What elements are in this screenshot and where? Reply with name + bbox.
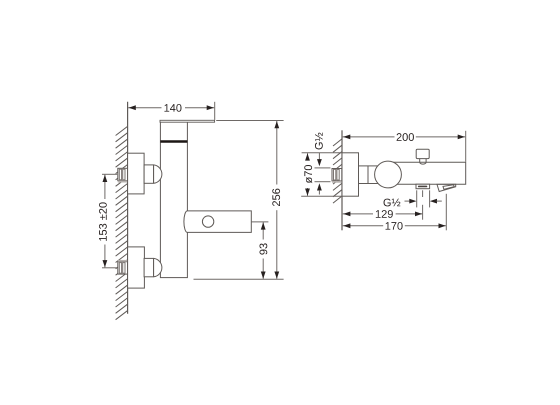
dimension ø70 label <box>304 165 312 183</box>
dimension 200 right extension <box>465 131 467 162</box>
left view bottom inlet nipple <box>118 260 128 274</box>
dimension 93 line <box>262 222 264 239</box>
dimension 153±20 label <box>99 202 107 241</box>
dimension ø70 ref lines <box>302 152 342 154</box>
dimension 129 label <box>376 210 393 218</box>
right view wall hatching <box>333 139 342 203</box>
left view wall line <box>127 102 129 314</box>
left view bottom escutcheon <box>128 247 145 288</box>
left view top union nut <box>144 165 162 183</box>
outlet axis extension line <box>422 190 424 197</box>
label G1/2 top left <box>315 133 323 150</box>
left view wall hatching <box>116 127 128 320</box>
dimension 200 line <box>343 136 395 138</box>
dimension 256 top ref line <box>216 120 283 122</box>
dimension 93 label <box>259 243 267 254</box>
dimension 170 right extension <box>445 194 447 231</box>
dimension 140 extension line right <box>214 102 216 120</box>
label G1/2 bottom <box>384 199 401 207</box>
left view faucet body <box>160 122 187 278</box>
left view top escutcheon <box>128 153 145 194</box>
left view bottom union nut <box>144 258 162 276</box>
left view body joint thick line <box>160 140 187 142</box>
right view aerator <box>416 184 430 189</box>
dimension 93 ref line (spout axis) <box>251 221 268 223</box>
dimension 153±20 ref line bottom <box>102 267 117 269</box>
bottom ref line <box>194 278 284 280</box>
right view neck tube <box>359 166 379 184</box>
dimension 140 label <box>164 104 181 112</box>
dimension 170 line <box>343 225 384 227</box>
dimension 170 label <box>386 222 403 230</box>
dimension 153±20 line <box>104 175 106 199</box>
G1/2 bottom dim arrows <box>405 200 410 202</box>
dimension 129 line <box>343 213 373 215</box>
right view knob stem <box>420 159 426 164</box>
right view inlet nipple <box>332 169 342 183</box>
dimension 200 label <box>397 133 414 141</box>
right view diverter knob <box>416 149 429 158</box>
right view outlet spout <box>437 184 456 191</box>
right view wall line <box>341 130 343 230</box>
left view lever handle <box>160 120 215 122</box>
left view top inlet nipple <box>118 168 128 182</box>
left view spout set screw circle <box>202 216 213 227</box>
dimension 140 line <box>128 107 161 109</box>
dimension 153±20 ref line top <box>102 173 117 175</box>
dimension 256 label <box>272 189 280 206</box>
right view neck joint line <box>367 166 369 184</box>
left view spout <box>184 211 251 233</box>
dimension ø70 line <box>307 153 309 160</box>
right view cartridge circle <box>375 161 402 188</box>
G1/2 extension lines <box>416 190 418 207</box>
dimension 256 line <box>276 121 278 185</box>
right view escutcheon <box>342 153 359 196</box>
G1/2 top arrows <box>318 153 320 160</box>
right view body bar <box>393 162 465 184</box>
